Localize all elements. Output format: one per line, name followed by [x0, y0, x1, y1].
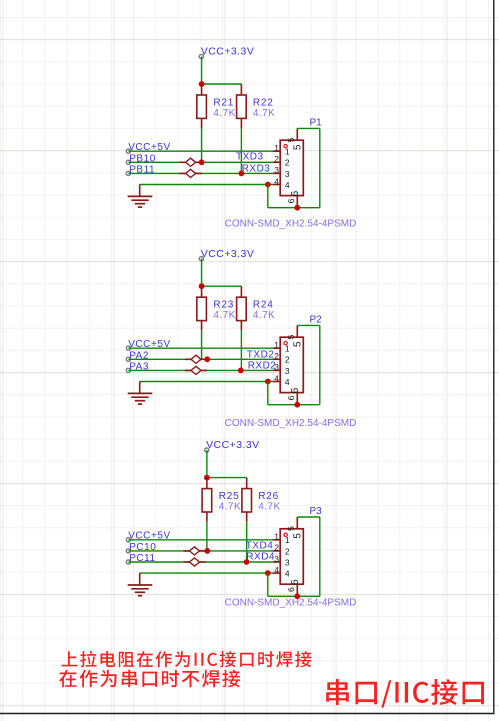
pin 2 of P1	[273, 161, 281, 163]
wire resistor-top link	[207, 477, 247, 479]
svg-text:R22: R22	[253, 97, 274, 108]
wire R22 bottom to row	[240, 128, 242, 173]
svg-text:2: 2	[274, 351, 279, 361]
junction pin 6	[294, 205, 300, 211]
wire R23 bottom to row	[201, 330, 203, 359]
wire ground row	[140, 572, 273, 574]
pin number 5	[288, 335, 294, 339]
pin 1 of P1	[273, 150, 281, 152]
pin 3 of P3	[273, 561, 281, 563]
pin 5 of P3 (top)	[296, 517, 298, 529]
pin name 5	[293, 145, 300, 150]
svg-text:P3: P3	[310, 506, 323, 517]
resistor R24	[237, 286, 247, 330]
pin number 5	[288, 138, 294, 142]
pin 6 of P1 (bottom)	[296, 196, 298, 208]
wire PA2 row	[128, 358, 272, 360]
svg-text:4: 4	[285, 377, 290, 387]
svg-text:4.7K: 4.7K	[253, 108, 275, 119]
pin 4 of P1	[273, 184, 281, 186]
pin 6 of P2 (bottom)	[296, 393, 298, 405]
svg-text:4: 4	[274, 565, 279, 575]
junction ground row	[265, 182, 271, 188]
wire VCC+5V row	[128, 347, 272, 349]
pin 2 of P3	[273, 550, 281, 552]
ground symbol	[128, 185, 153, 208]
svg-text:R26: R26	[258, 491, 279, 502]
junction ground row	[265, 570, 271, 576]
pin 2 of P2	[273, 358, 281, 360]
wire VCC+5V row	[128, 150, 272, 152]
net port PB11	[126, 171, 130, 175]
svg-text:4: 4	[274, 176, 279, 186]
svg-text:VCC+3.3V: VCC+3.3V	[201, 248, 255, 260]
pin number 6	[288, 588, 294, 592]
wire R24 bottom to row	[240, 330, 242, 370]
svg-text:3: 3	[274, 362, 279, 372]
svg-text:1: 1	[274, 143, 279, 153]
svg-text:CONN-SMD_XH2.54-4PSMD: CONN-SMD_XH2.54-4PSMD	[225, 219, 357, 230]
svg-text:3: 3	[285, 169, 290, 179]
svg-text:R21: R21	[213, 97, 234, 108]
svg-text:3: 3	[274, 165, 279, 175]
wire bottom link	[268, 404, 320, 406]
pin 1 of P2	[273, 347, 281, 349]
annotation text line 2	[59, 670, 240, 688]
svg-text:2: 2	[274, 543, 279, 553]
ground symbol	[128, 382, 153, 405]
svg-text:VCC+3.3V: VCC+3.3V	[201, 46, 255, 58]
wire ground drop	[267, 185, 269, 208]
junction PC11 row	[244, 559, 250, 565]
wire R26 bottom to row	[246, 522, 248, 562]
svg-text:RXD3: RXD3	[242, 163, 271, 174]
pin 6 of P3 (bottom)	[296, 584, 298, 596]
wire ground drop	[267, 382, 269, 405]
junction PB11 row	[239, 171, 245, 177]
svg-text:4: 4	[285, 180, 290, 190]
jumper diamond on PC10	[183, 547, 205, 555]
svg-text:1: 1	[274, 532, 279, 542]
pin name 5	[293, 534, 300, 539]
jumper diamond on PB10	[179, 158, 201, 166]
svg-text:2: 2	[285, 158, 290, 168]
resistor R23	[197, 286, 207, 330]
annotation text line 1	[62, 651, 312, 668]
wire R21 bottom to row	[201, 128, 203, 162]
wire top link	[297, 324, 320, 326]
pin number 6	[288, 199, 294, 203]
sheet border bottom	[0, 713, 495, 715]
wire PB10 row	[128, 161, 272, 163]
resistor R25	[202, 478, 212, 522]
jumper diamond on PA3	[185, 366, 207, 374]
resistor R22	[237, 84, 247, 128]
svg-text:P2: P2	[310, 314, 323, 325]
wire VCC+3.3V vertical	[201, 259, 203, 287]
pin name 6	[291, 580, 298, 585]
pin 4 of P2	[273, 381, 281, 383]
pin-1 indicator circle	[284, 342, 287, 345]
connector P1 body	[280, 140, 303, 195]
net port PC11	[126, 560, 130, 564]
net port PC10	[126, 549, 130, 553]
svg-text:3: 3	[285, 366, 290, 376]
title text 串口/IIC接口	[326, 679, 484, 708]
svg-text:3: 3	[285, 557, 290, 567]
svg-text:TXD3: TXD3	[236, 152, 264, 163]
junction PA2 row	[204, 356, 210, 362]
wire resistor-top link	[202, 285, 242, 287]
wire R25 bottom to row	[206, 522, 208, 551]
junction pin 6	[294, 593, 300, 599]
junction at R23 top	[199, 283, 205, 289]
wire ground row	[140, 381, 273, 383]
svg-text:RXD4: RXD4	[246, 551, 275, 562]
power flag VCC+3.3V (P2 block)	[199, 257, 203, 261]
svg-text:4.7K: 4.7K	[213, 310, 235, 321]
jumper diamond on PB11	[179, 169, 201, 177]
svg-text:4.7K: 4.7K	[253, 310, 275, 321]
junction pin 6	[294, 402, 300, 408]
wire VCC+3.3V vertical	[201, 57, 203, 85]
junction at R21 top	[199, 81, 205, 87]
resistor R26	[242, 478, 252, 522]
svg-text:4.7K: 4.7K	[258, 501, 280, 512]
net port VCC+5V	[126, 538, 130, 542]
wire VCC+3.3V vertical	[206, 450, 208, 478]
wire right rail	[319, 517, 321, 596]
resistor R21	[197, 84, 207, 128]
net port VCC+5V	[126, 149, 130, 153]
svg-text:3: 3	[274, 554, 279, 564]
pin 4 of P3	[273, 572, 281, 574]
svg-text:VCC+3.3V: VCC+3.3V	[206, 439, 260, 451]
wire right rail	[319, 325, 321, 404]
svg-text:R25: R25	[219, 491, 240, 502]
pin 3 of P2	[273, 369, 281, 371]
svg-text:RXD2: RXD2	[248, 361, 277, 372]
svg-text:2: 2	[285, 355, 290, 365]
connector P3 body	[280, 529, 303, 584]
wire bottom link	[268, 595, 320, 597]
pin 5 of P1 (top)	[296, 128, 298, 140]
pin-1 indicator circle	[284, 533, 287, 536]
svg-text:TXD4: TXD4	[246, 541, 274, 552]
wire PB11 row	[128, 172, 272, 174]
wire PA3 row	[128, 369, 272, 371]
svg-text:P1: P1	[310, 117, 323, 128]
svg-text:4: 4	[274, 373, 279, 383]
net port PA3	[126, 368, 130, 372]
jumper diamond on PA2	[185, 355, 207, 363]
pin-1 indicator circle	[284, 145, 287, 148]
svg-text:CONN-SMD_XH2.54-4PSMD: CONN-SMD_XH2.54-4PSMD	[225, 598, 357, 609]
svg-text:4: 4	[285, 569, 290, 579]
pin name 6	[291, 388, 298, 393]
wire top link	[297, 127, 320, 129]
sheet border right	[493, 0, 495, 714]
power flag VCC+3.3V (P3 block)	[205, 448, 209, 452]
svg-text:TXD2: TXD2	[247, 349, 275, 360]
svg-text:R23: R23	[213, 300, 234, 311]
pin number 6	[288, 396, 294, 400]
net port PA2	[126, 357, 130, 361]
jumper diamond on PC11	[183, 558, 205, 566]
wire VCC+5V row	[128, 539, 272, 541]
pin name 6	[291, 191, 298, 196]
svg-text:CONN-SMD_XH2.54-4PSMD: CONN-SMD_XH2.54-4PSMD	[225, 418, 357, 429]
svg-text:R24: R24	[253, 300, 274, 311]
junction PC10 row	[204, 548, 210, 554]
pin 1 of P3	[273, 539, 281, 541]
wire right rail	[319, 128, 321, 207]
power flag VCC+3.3V (P1 block)	[199, 54, 203, 58]
pin 5 of P2 (top)	[296, 325, 298, 337]
svg-text:2: 2	[285, 546, 290, 556]
pin number 5	[288, 527, 294, 531]
junction at R25 top	[204, 475, 210, 481]
wire PC11 row	[128, 561, 272, 563]
svg-text:1: 1	[274, 340, 279, 350]
net port VCC+5V	[126, 346, 130, 350]
pin 3 of P1	[273, 172, 281, 174]
wire bottom link	[268, 207, 320, 209]
wire ground drop	[267, 573, 269, 596]
net port PB10	[126, 160, 130, 164]
wire ground row	[140, 184, 273, 186]
wire PC10 row	[128, 550, 272, 552]
wire resistor-top link	[202, 83, 242, 85]
svg-text:2: 2	[274, 154, 279, 164]
svg-text:4.7K: 4.7K	[219, 501, 241, 512]
ground symbol	[128, 573, 153, 596]
junction PA3 row	[238, 368, 244, 374]
svg-text:4.7K: 4.7K	[213, 108, 235, 119]
wire top link	[297, 516, 320, 518]
connector P2 body	[280, 337, 303, 392]
junction PB10 row	[199, 159, 205, 165]
junction ground row	[265, 379, 271, 385]
pin name 5	[293, 342, 300, 347]
